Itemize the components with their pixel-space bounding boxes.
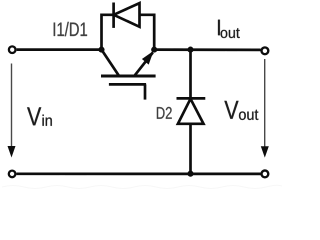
wire D2 branch upper (189, 50, 192, 99)
label D2 (157, 107, 172, 119)
node right junction (collector/output) (151, 47, 157, 53)
diode D1 (anti-parallel) (114, 3, 140, 28)
wire D2 branch lower (189, 124, 192, 174)
wire top rail right segment (154, 48, 261, 51)
terminal bottom-left (9, 171, 16, 178)
node bottom junction (187, 171, 193, 177)
node D2 top junction (187, 47, 193, 53)
wire top rail left segment (17, 48, 102, 51)
label Iout (218, 20, 240, 38)
arrow Vout (261, 59, 269, 158)
wire bottom rail (17, 172, 261, 175)
wire D1 loop left (up and over to cathode) (102, 15, 114, 50)
arrow Vin (8, 64, 16, 158)
label Vout (224, 101, 258, 120)
label I1/D1 (54, 22, 87, 36)
terminal bottom-right (262, 171, 269, 178)
label Vin (27, 107, 52, 125)
diode D2 (freewheeling) (177, 98, 206, 123)
terminal top-left (9, 46, 16, 53)
transistor I1 (IGBT) (101, 50, 156, 100)
wire D1 loop right (from anode down to collector node) (140, 15, 155, 50)
node left junction (98, 47, 104, 53)
terminal top-right (262, 47, 269, 54)
